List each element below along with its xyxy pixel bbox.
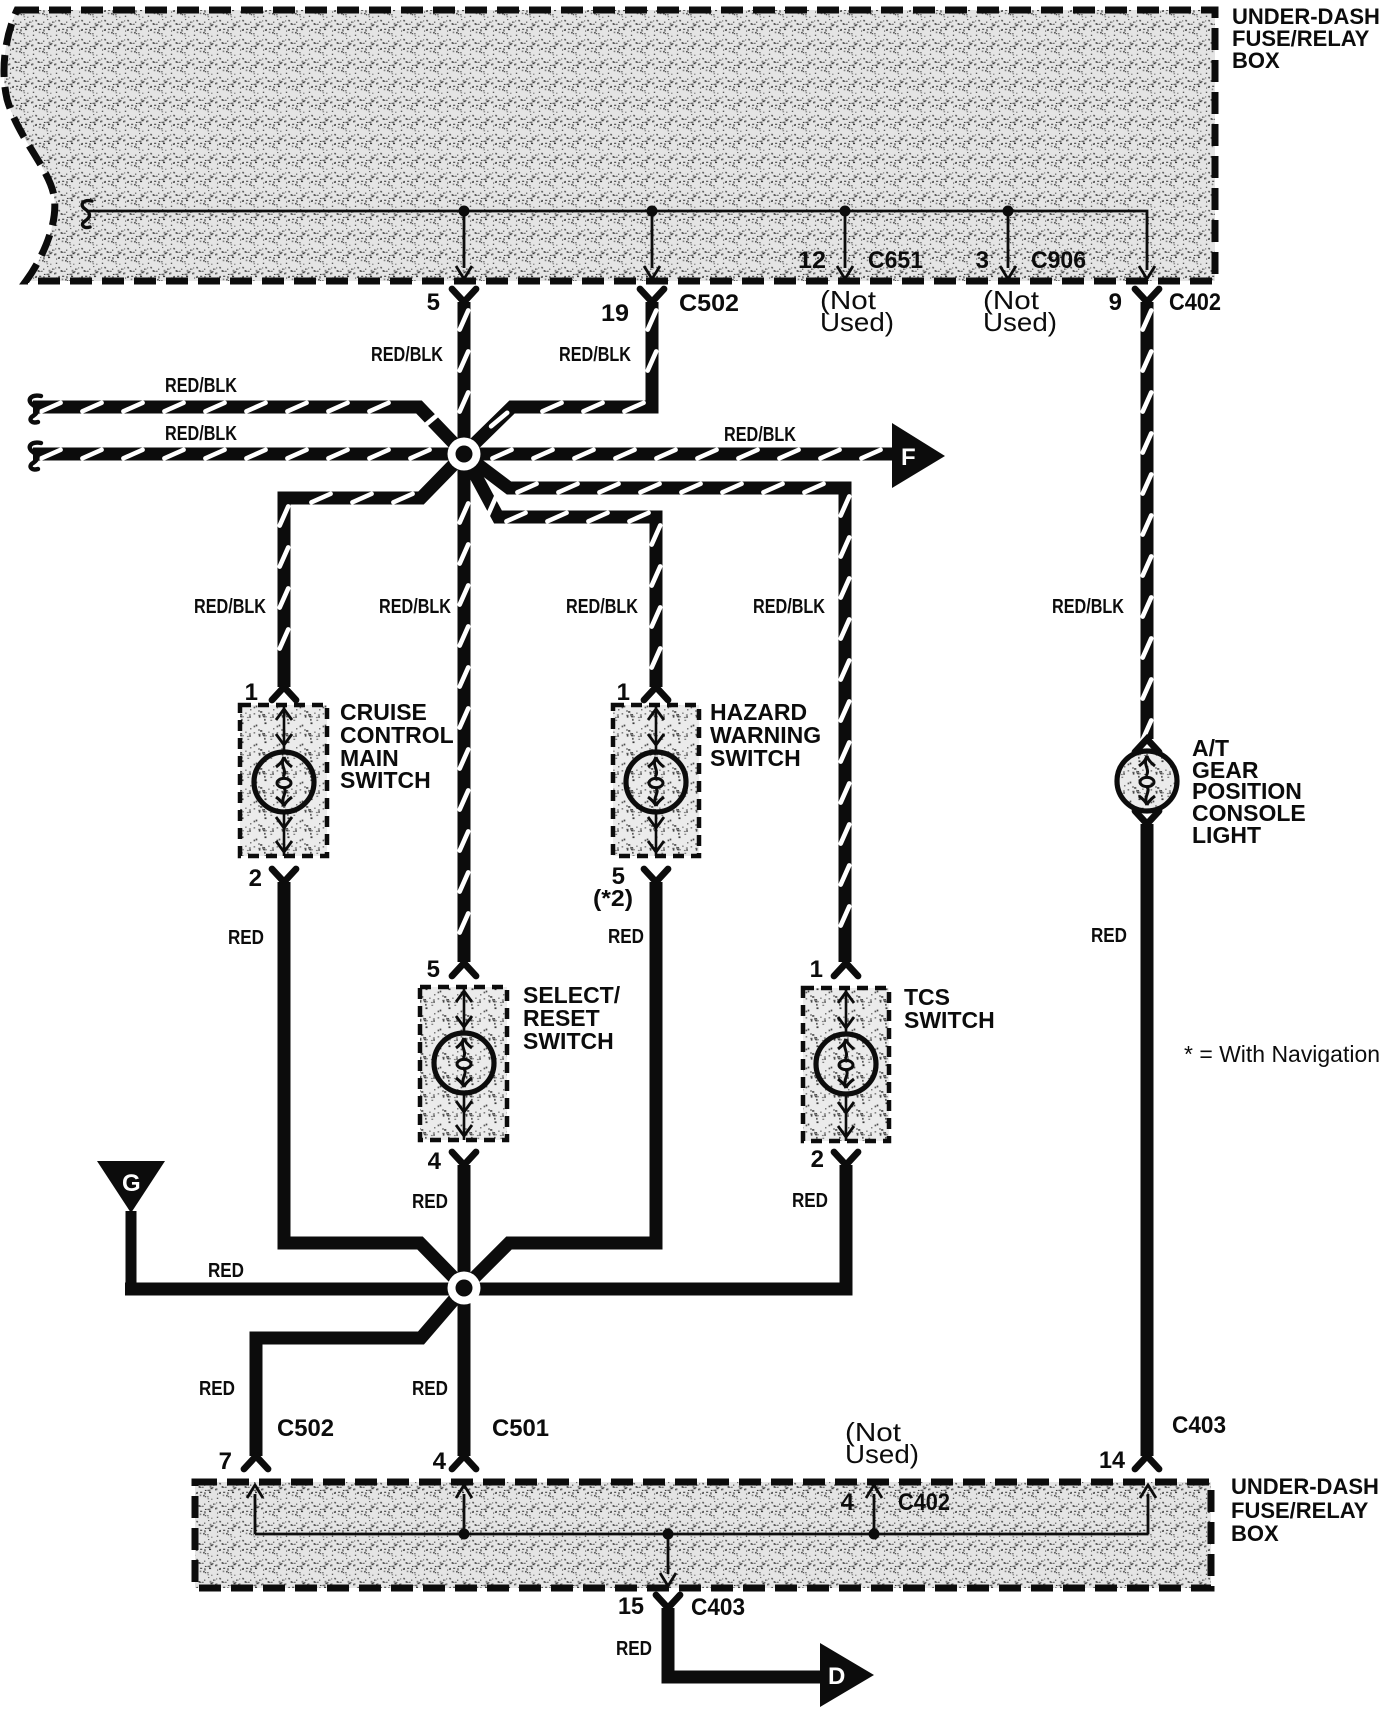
off-page arrow F	[892, 423, 945, 488]
pin arrow up x=255 (bottom box)	[247, 1485, 263, 1498]
wire label RED/BLK select riser	[379, 596, 451, 618]
pin label 4 (select)	[428, 1148, 442, 1175]
svg-text:* = With Navigation: * = With Navigation	[1184, 1041, 1380, 1067]
pin label 12	[798, 247, 826, 274]
svg-text:5: 5	[427, 289, 440, 316]
wire RED/BLK node A to cruise switch pin 1	[280, 454, 464, 687]
wire RED hazard switch pin 5 to node B	[464, 882, 656, 1288]
svg-text:RED/BLK: RED/BLK	[194, 596, 266, 618]
wire label RED ground	[208, 1260, 244, 1282]
svg-text:F: F	[901, 444, 916, 471]
label UNDER-DASH FUSE/RELAY BOX (top)	[1232, 4, 1380, 73]
component label A/T GEAR POSITION CONSOLE LIGHT	[1192, 735, 1306, 848]
svg-text:RED: RED	[208, 1260, 244, 1282]
pin arrow down x=1147 (top box)	[1139, 266, 1155, 279]
pin label 19	[601, 300, 629, 327]
svg-text:1: 1	[810, 956, 823, 983]
pin 14 terminal C403 (bottom box)	[1135, 1456, 1159, 1469]
connector label C502 (bottom)	[277, 1415, 334, 1442]
wire label RED A/T	[1091, 925, 1127, 947]
torn lead mark (lower RED/BLK)	[30, 443, 41, 470]
note * = With Navigation	[1184, 1041, 1380, 1067]
svg-text:15: 15	[618, 1593, 644, 1620]
wire RED/BLK torn lead lower through node A to F	[33, 450, 896, 459]
node A (RED/BLK splice)	[448, 438, 481, 471]
under-dash fuse/relay box (top)	[4, 10, 1215, 281]
wire internal bus (bottom box)	[255, 1494, 1148, 1574]
wire label RED/BLK pin 19	[559, 344, 631, 366]
wire RED/BLK torn lead upper to node A	[33, 403, 464, 454]
pin label 5 (hazard)	[612, 863, 625, 890]
svg-text:C906: C906	[1031, 247, 1086, 274]
wire label RED/BLK hazard	[566, 596, 638, 618]
svg-text:G: G	[122, 1170, 141, 1197]
wire RED/BLK node A to select/reset switch pin 5	[460, 454, 469, 962]
svg-text:UNDER-DASH: UNDER-DASH	[1231, 1474, 1379, 1499]
select/reset switch pin 5 terminal	[452, 963, 476, 976]
label UNDER-DASH FUSE/RELAY BOX (bottom)	[1231, 1474, 1379, 1546]
wire RED cruise switch pin 2 to node B	[284, 882, 464, 1288]
svg-text:C403: C403	[1172, 1412, 1226, 1439]
wire internal bus (top box)	[82, 201, 1147, 270]
svg-text:Used): Used)	[845, 1439, 919, 1469]
svg-text:7: 7	[219, 1448, 232, 1475]
svg-text:RED/BLK: RED/BLK	[559, 344, 631, 366]
wire RED node B to ground G	[125, 1283, 464, 1296]
pin label 1 (TCS)	[810, 956, 823, 983]
pin 7 terminal C502 (bottom box)	[244, 1456, 268, 1469]
component label CRUISE CONTROL MAIN SWITCH	[340, 699, 454, 793]
under-dash fuse/relay box (bottom)	[195, 1482, 1211, 1588]
wire RED select/reset switch pin 4 to node B	[458, 1165, 471, 1292]
wire RED node B to pin 4 C501	[458, 1286, 471, 1456]
connector label C906	[1031, 247, 1086, 274]
svg-text:5: 5	[427, 956, 440, 983]
hazard warning switch SW2	[613, 705, 699, 856]
svg-text:SWITCH: SWITCH	[523, 1028, 614, 1054]
svg-text:SWITCH: SWITCH	[904, 1007, 995, 1033]
pin label 9	[1109, 289, 1122, 316]
svg-text:LIGHT: LIGHT	[1192, 822, 1261, 848]
svg-text:Used): Used)	[820, 307, 894, 337]
connector label C502 (top)	[679, 290, 739, 317]
svg-text:C402: C402	[898, 1489, 950, 1516]
A/T console light lower terminal	[1135, 811, 1159, 824]
select/reset switch SW3	[420, 987, 507, 1140]
svg-text:(*2): (*2)	[593, 885, 633, 911]
pin 15 terminal C403 (bottom box)	[656, 1595, 680, 1608]
svg-text:D: D	[828, 1663, 845, 1690]
pin 19 terminal (top box)	[640, 289, 664, 302]
svg-text:3: 3	[976, 247, 989, 274]
node B (RED splice)	[448, 1272, 481, 1305]
pin label 1 (cruise)	[245, 679, 258, 706]
wire label RED to pin4	[412, 1378, 448, 1400]
wire label RED/BLK A/T	[1052, 596, 1124, 618]
connector label C651	[868, 247, 923, 274]
wire label RED cruise pin2	[228, 927, 264, 949]
wire label RED/BLK torn lower	[165, 423, 237, 445]
wire RED/BLK node A to hazard switch pin 1	[464, 454, 660, 687]
svg-text:C651: C651	[868, 247, 923, 274]
pin 4 terminal C501 (bottom box)	[452, 1456, 476, 1469]
svg-text:FUSE/RELAY: FUSE/RELAY	[1231, 1498, 1369, 1523]
svg-text:C502: C502	[679, 290, 739, 317]
svg-text:SWITCH: SWITCH	[710, 745, 801, 771]
pin arrow up x=874 (bottom box)	[866, 1485, 882, 1498]
junction dot bus x=845	[840, 206, 851, 269]
svg-text:2: 2	[249, 865, 262, 892]
A/T gear position console light L1	[1117, 751, 1177, 811]
wire label RED select pin4	[412, 1191, 448, 1213]
svg-text:RED/BLK: RED/BLK	[753, 596, 825, 618]
torn lead mark (upper RED/BLK)	[30, 396, 41, 423]
junction dot bus x=652	[647, 206, 658, 269]
svg-text:RED: RED	[1091, 925, 1127, 947]
svg-text:C501: C501	[492, 1415, 549, 1442]
pin 5 terminal (top box)	[452, 289, 476, 302]
pin label 1 (hazard)	[617, 679, 630, 706]
wire label RED/BLK pin 5	[371, 344, 443, 366]
TCS switch pin 2 terminal	[834, 1152, 858, 1165]
component label TCS SWITCH	[904, 984, 995, 1033]
pin label 5 (select)	[427, 956, 440, 983]
svg-text:RED/BLK: RED/BLK	[566, 596, 638, 618]
svg-text:RED: RED	[608, 926, 644, 948]
wire label RED to pin7	[199, 1378, 235, 1400]
junction dot bus x=668 (bottom box)	[663, 1529, 674, 1540]
pin label 2 (cruise)	[249, 865, 262, 892]
cruise switch pin 2 terminal	[272, 869, 296, 882]
pin label 5	[427, 289, 440, 316]
connector label C403 (pin 14)	[1172, 1412, 1226, 1439]
svg-text:RED: RED	[792, 1190, 828, 1212]
svg-text:C403: C403	[691, 1594, 745, 1621]
pin label 4 (C501)	[433, 1448, 447, 1475]
junction dot bus x=1008	[1003, 206, 1014, 269]
svg-text:C502: C502	[277, 1415, 334, 1442]
hazard switch pin 5 terminal	[644, 869, 668, 882]
wire RED A/T console light to pin 14 C403	[1141, 824, 1154, 1456]
pin arrow up x=464 (bottom box)	[456, 1485, 472, 1498]
cruise control main switch SW1	[240, 705, 327, 856]
note (*2) hazard	[593, 885, 633, 911]
pin arrow down x=652 (top box)	[644, 266, 660, 279]
hazard switch pin 1 terminal	[644, 687, 668, 700]
off-page arrow D	[820, 1643, 874, 1707]
cruise switch pin 1 terminal	[272, 687, 296, 700]
pin 9 terminal C402 (top box)	[1135, 289, 1159, 302]
connector label C501	[492, 1415, 549, 1442]
A/T console light upper terminal	[1135, 739, 1159, 752]
select/reset switch pin 4 terminal	[452, 1152, 476, 1165]
svg-text:BOX: BOX	[1232, 48, 1280, 73]
svg-text:SWITCH: SWITCH	[340, 767, 431, 793]
svg-text:RED/BLK: RED/BLK	[1052, 596, 1124, 618]
component label SELECT/RESET SWITCH	[523, 982, 621, 1054]
connector label C403 (pin 15)	[691, 1594, 745, 1621]
svg-text:RED/BLK: RED/BLK	[379, 596, 451, 618]
wire RED pin 15 C403 to arrow D	[668, 1608, 824, 1677]
pin label 15	[618, 1593, 644, 1620]
junction dot bus x=464	[459, 206, 470, 269]
TCS switch pin 1 terminal	[834, 963, 858, 976]
pin label 2 (TCS)	[811, 1146, 824, 1173]
svg-text:9: 9	[1109, 289, 1122, 316]
wire RED/BLK pin 19 to node A	[464, 302, 656, 454]
TCS switch SW4	[803, 988, 889, 1141]
pin arrow down x=668 (bottom box, pin 15)	[660, 1573, 676, 1586]
svg-text:1: 1	[245, 679, 258, 706]
svg-text:1: 1	[617, 679, 630, 706]
wire label RED/BLK cruise	[194, 596, 266, 618]
connector label C402 (top)	[1169, 289, 1221, 316]
svg-text:RED: RED	[228, 927, 264, 949]
wire label RED/BLK TCS	[753, 596, 825, 618]
svg-text:RED/BLK: RED/BLK	[371, 344, 443, 366]
pin arrow down x=845 (top box)	[837, 266, 853, 279]
svg-text:4: 4	[428, 1148, 442, 1175]
wire RED node B to pin 7 C502	[256, 1288, 464, 1456]
svg-text:RED/BLK: RED/BLK	[165, 375, 237, 397]
junction dot bus x=874 (bottom box)	[869, 1529, 880, 1540]
wire label RED pin15	[616, 1638, 652, 1660]
wire label RED/BLK to F	[724, 424, 796, 446]
note (Not Used) C651	[820, 285, 894, 337]
ground G	[97, 1161, 165, 1287]
pin arrow down x=464 (top box)	[456, 266, 472, 279]
svg-text:4: 4	[841, 1489, 855, 1516]
pin arrow down x=1008 (top box)	[1000, 266, 1016, 279]
component label HAZARD WARNING SWITCH	[710, 699, 821, 771]
pin arrow up x=1148 (bottom box)	[1140, 1485, 1156, 1498]
svg-text:C402: C402	[1169, 289, 1221, 316]
wire label RED TCS pin2	[792, 1190, 828, 1212]
svg-text:Used): Used)	[983, 307, 1057, 337]
svg-text:19: 19	[601, 300, 629, 327]
pin label 14	[1099, 1447, 1126, 1474]
svg-text:RED: RED	[199, 1378, 235, 1400]
pin label 7	[219, 1448, 232, 1475]
svg-text:2: 2	[811, 1146, 824, 1173]
svg-text:BOX: BOX	[1231, 1521, 1279, 1546]
svg-text:RED: RED	[616, 1638, 652, 1660]
wire RED TCS switch pin 2 to node B	[464, 1165, 846, 1289]
svg-text:RED/BLK: RED/BLK	[724, 424, 796, 446]
svg-text:RED/BLK: RED/BLK	[165, 423, 237, 445]
pin label 3	[976, 247, 989, 274]
wire label RED hazard pin5	[608, 926, 644, 948]
wire RED/BLK pin 9 to A/T console light	[1143, 302, 1152, 740]
connector label C402 (bottom)	[898, 1489, 950, 1516]
svg-text:14: 14	[1099, 1447, 1126, 1474]
svg-text:4: 4	[433, 1448, 447, 1475]
wire RED/BLK pin 5 riser	[460, 302, 469, 454]
wire RED/BLK node A to TCS switch pin 1	[464, 454, 849, 962]
note (Not Used) C906	[983, 285, 1057, 337]
note (Not Used) C402	[845, 1417, 919, 1469]
pin label 4 (C402)	[841, 1489, 855, 1516]
wire label RED/BLK torn upper	[165, 375, 237, 397]
svg-text:RED: RED	[412, 1191, 448, 1213]
svg-text:RED: RED	[412, 1378, 448, 1400]
svg-text:12: 12	[798, 247, 826, 274]
junction dot bus x=464 (bottom box)	[459, 1529, 470, 1540]
